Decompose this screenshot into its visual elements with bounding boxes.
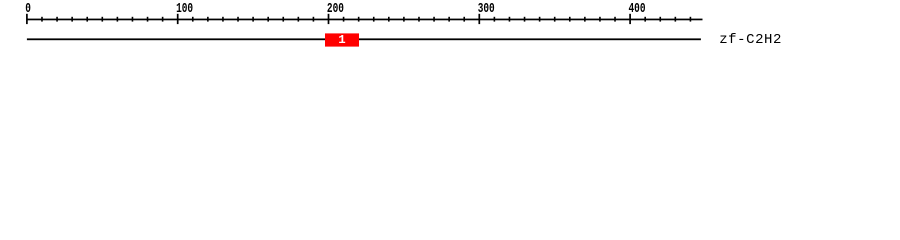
svg-text:300: 300 [478,0,495,16]
svg-text:100: 100 [176,0,193,16]
svg-text:0: 0 [25,0,31,16]
domain box 1 (zf-C2H2) [325,33,359,46]
background [0,0,900,58]
ruler axis line [27,19,703,21]
svg-text:400: 400 [628,0,645,16]
ruler minor ticks (every 10 aa) [41,17,691,22]
svg-text:1: 1 [338,33,345,47]
sequence backbone line [27,38,701,40]
ruler major ticks (0,100,200,300,400) [26,14,631,24]
svg-text:200: 200 [327,0,344,16]
svg-text:zf-C2H2: zf-C2H2 [719,32,781,48]
